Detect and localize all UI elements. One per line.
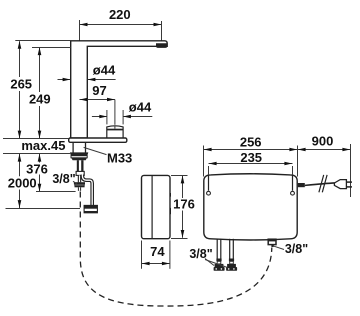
supply tube right bbox=[81, 160, 83, 171]
svg-text:3/8": 3/8" bbox=[52, 172, 75, 186]
shank below plate bbox=[72, 142, 74, 152]
screw slot right bbox=[292, 175, 294, 190]
svg-text:176: 176 bbox=[173, 197, 195, 212]
plug prongs bbox=[346, 181, 352, 183]
screw slot left bbox=[208, 175, 210, 190]
dim 176 ext bottom bbox=[171, 238, 188, 240]
svg-text:ø44: ø44 bbox=[129, 100, 152, 115]
control knob body bbox=[107, 126, 123, 138]
knob centre tick bbox=[114, 125, 116, 128]
svg-text:265: 265 bbox=[10, 77, 32, 92]
leaders 3/8 hoses bbox=[205, 259, 214, 266]
side view tab lower bbox=[170, 208, 171, 214]
supply tube left bbox=[77, 160, 79, 171]
side view unit body bbox=[142, 175, 171, 238]
foot weight bbox=[84, 205, 97, 212]
knob centerline ext bbox=[114, 100, 116, 125]
knob dark band bbox=[107, 129, 123, 131]
faucet centerline bbox=[79, 20, 81, 141]
mounting rod elbow tube bbox=[82, 175, 92, 206]
dim o44 column line left bbox=[58, 79, 71, 81]
dim 249 line bbox=[39, 48, 41, 92]
plug body bbox=[334, 180, 346, 189]
dim 220 extension right bbox=[161, 21, 163, 44]
ext 376 bottom bbox=[36, 191, 76, 193]
knob edge ext left bbox=[106, 110, 108, 124]
screw hole right bbox=[291, 191, 295, 195]
dim 900 ext right bbox=[350, 144, 352, 197]
coupling bbox=[76, 171, 84, 175]
dim 176 ext top bbox=[171, 175, 188, 177]
box hose 2 walls bbox=[229, 239, 231, 259]
leader 3/8 outlet bbox=[274, 246, 284, 249]
svg-text:ø44: ø44 bbox=[93, 63, 116, 78]
screw hole left bbox=[207, 191, 211, 195]
dim 265 line bbox=[19, 41, 21, 77]
dim 74 line bbox=[142, 263, 170, 265]
spout tip aerator bbox=[156, 43, 167, 48]
3/8 fitting on faucet hose bbox=[74, 182, 85, 184]
dim 74 ext right bbox=[169, 241, 171, 269]
svg-text:97: 97 bbox=[92, 83, 106, 98]
dim 256/900 shared ext bbox=[297, 146, 299, 177]
box outlet fitting right bbox=[268, 239, 276, 244]
ext line spout top left bbox=[15, 40, 70, 42]
svg-text:249: 249 bbox=[29, 92, 51, 107]
dim 176 line bbox=[182, 176, 184, 198]
knob edge ext right bbox=[122, 110, 124, 124]
M33 nut bottom bbox=[71, 158, 87, 160]
side view unit internal line bbox=[151, 176, 153, 239]
cable break slashes bbox=[319, 175, 324, 192]
svg-text:M33: M33 bbox=[107, 150, 132, 165]
dim o44 column line right bbox=[88, 79, 116, 81]
dim 900 line bbox=[298, 149, 351, 151]
dim 2000 line bbox=[19, 154, 21, 177]
dashed hose curve bbox=[80, 192, 271, 307]
counter bottom line bbox=[3, 153, 70, 155]
leader 3/8 faucet bbox=[73, 181, 77, 184]
svg-text:max.45: max.45 bbox=[21, 138, 65, 153]
svg-text:900: 900 bbox=[312, 133, 334, 148]
svg-text:74: 74 bbox=[150, 244, 165, 259]
svg-text:3/8": 3/8" bbox=[285, 242, 308, 256]
dim 220 arrow left bbox=[80, 23, 88, 27]
dim 97 line bbox=[80, 99, 116, 101]
M33 nut top bbox=[70, 152, 88, 155]
svg-text:235: 235 bbox=[240, 150, 262, 165]
ext 2000 bottom bbox=[6, 208, 81, 210]
dim 220 line bbox=[80, 24, 162, 26]
tube below fitting bbox=[78, 187, 81, 191]
side view tab upper bbox=[170, 193, 171, 197]
dim 376 line bbox=[39, 154, 41, 163]
dim 256 ext left bbox=[203, 146, 205, 177]
control box body bbox=[204, 174, 297, 240]
box hose 1 walls bbox=[216, 239, 218, 259]
dim 235 line bbox=[209, 163, 293, 165]
counter top line bbox=[3, 138, 69, 140]
dim o44 knob line left bbox=[92, 116, 107, 118]
svg-text:220: 220 bbox=[109, 7, 131, 22]
svg-text:256: 256 bbox=[240, 134, 262, 149]
ext line spout bottom left bbox=[32, 47, 71, 49]
dim 220 arrow right bbox=[154, 23, 162, 27]
cable stub bbox=[298, 183, 305, 187]
faucet spout and column body bbox=[71, 41, 168, 138]
svg-text:2000: 2000 bbox=[8, 175, 37, 190]
box hose 1 fitting bbox=[216, 259, 221, 262]
box hose 2 fitting bbox=[229, 259, 234, 262]
dim 256 line bbox=[204, 149, 298, 151]
M33 nut middle band bbox=[71, 156, 87, 158]
svg-text:376: 376 bbox=[26, 161, 48, 176]
leader M33 bbox=[84, 147, 107, 154]
base plate bbox=[69, 138, 127, 142]
cable bbox=[305, 183, 335, 186]
left tube neck bbox=[78, 175, 81, 182]
svg-text:3/8": 3/8" bbox=[189, 247, 212, 261]
dim o44 knob line right bbox=[123, 116, 152, 118]
dim 74 ext left bbox=[141, 241, 143, 269]
